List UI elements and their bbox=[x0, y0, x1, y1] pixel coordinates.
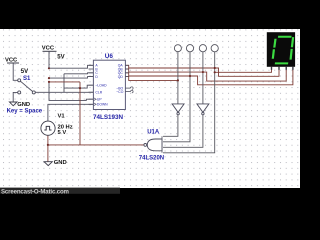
node QA-v4 bbox=[214, 67, 216, 69]
node QC-v2 bbox=[189, 75, 191, 77]
IC U6 pin labels bbox=[95, 64, 123, 107]
display pins bbox=[272, 67, 293, 70]
probe indicator X2 bbox=[186, 45, 193, 52]
wire probe 1 vertical bbox=[177, 52, 179, 104]
digit 0 segments bbox=[272, 36, 295, 65]
svg-text:GND: GND bbox=[54, 160, 67, 166]
wire VCC2 maroon branch bbox=[49, 81, 80, 83]
svg-text:S1: S1 bbox=[23, 76, 31, 82]
wire V1 clock to DOWN pin bbox=[48, 104, 94, 121]
node load step bbox=[79, 87, 81, 89]
wire VCC2 trunk down to UP pin bbox=[49, 82, 93, 101]
wire styles: gray wires bbox=[13, 63, 93, 121]
probe indicator X1 bbox=[174, 45, 218, 52]
NAND gate U1A 74LS20N (mirrored, output left) bbox=[144, 136, 162, 153]
svg-text:VCC: VCC bbox=[5, 57, 18, 63]
letterbox bottom bar bbox=[0, 188, 300, 225]
wire QA out to display in 2 bbox=[125, 65, 279, 76]
svg-text:5V: 5V bbox=[57, 55, 64, 61]
wire switch common to CLR pin bbox=[35, 91, 93, 93]
svg-text:74LS193N: 74LS193N bbox=[93, 114, 124, 121]
wire probe 2 vertical bbox=[163, 52, 190, 142]
svg-text:UP: UP bbox=[97, 98, 102, 102]
power VCC middle bbox=[43, 51, 57, 68]
wire QD out bbox=[125, 77, 178, 81]
probe indicator X3 bbox=[199, 45, 206, 52]
power VCC left bbox=[7, 62, 19, 64]
IC U6 74LS193N body bbox=[93, 60, 125, 109]
wire switch bottom throw to ground bbox=[13, 92, 18, 101]
node VCC2-maroon bbox=[48, 81, 50, 83]
svg-text:DOWN: DOWN bbox=[97, 103, 108, 107]
inverter on v1 bbox=[172, 104, 184, 115]
letterbox top bar bbox=[0, 0, 300, 29]
svg-text:~LOAD: ~LOAD bbox=[95, 84, 107, 88]
wire QC out to display in 4 bbox=[125, 67, 293, 85]
svg-text:U6: U6 bbox=[105, 53, 114, 60]
wire VCC2 to A input bbox=[49, 65, 93, 68]
svg-text:CLR: CLR bbox=[95, 91, 102, 95]
svg-text:5 V: 5 V bbox=[58, 130, 67, 136]
clock source V1 bbox=[41, 121, 55, 135]
svg-text:~CO: ~CO bbox=[116, 90, 123, 94]
svg-text:74LS20N: 74LS20N bbox=[139, 156, 164, 162]
node w1-v4 bbox=[214, 71, 216, 73]
ground GND under V1 bbox=[44, 162, 52, 166]
wire NAND output horizontal / V1 minus net bbox=[48, 144, 144, 146]
node QB-v3 bbox=[202, 71, 204, 73]
inverter on v3 bbox=[197, 104, 209, 115]
IC U6 clock wedges bbox=[93, 98, 96, 106]
svg-text:U1A: U1A bbox=[147, 129, 160, 135]
wire QB out to display in 3 bbox=[125, 67, 286, 81]
switch S1 bbox=[18, 79, 36, 94]
ground GND left bbox=[9, 102, 17, 106]
wire vertical node x64 bbox=[63, 74, 65, 93]
seven-segment display U2 bbox=[267, 32, 295, 70]
wire node x64 to ~LOAD step bbox=[64, 85, 93, 88]
wire VCC2 to D input bbox=[49, 77, 93, 79]
node VCC2-D bbox=[48, 77, 50, 79]
schematic dotted-grid background bbox=[0, 29, 300, 188]
svg-text:GND: GND bbox=[17, 102, 30, 108]
node QD-v1 bbox=[177, 79, 179, 81]
watermark band bbox=[0, 188, 120, 194]
maroon wires bbox=[48, 65, 293, 161]
wire probe 4 vertical bbox=[163, 52, 215, 153]
IC U6 unconnected pin hooks bbox=[131, 87, 134, 93]
wire node x64 to C input bbox=[64, 73, 93, 74]
wire v4 to display in 1 bbox=[215, 67, 272, 73]
svg-text:5V: 5V bbox=[21, 69, 28, 75]
wire probe 3 vertical bbox=[202, 52, 204, 104]
node VCC2-A bbox=[48, 67, 50, 69]
probe vertical wires (gray) bbox=[163, 52, 215, 153]
IC U6 pin stubs left bbox=[89, 65, 94, 104]
probe indicator X4 bbox=[211, 45, 218, 52]
node V1 minus bbox=[47, 144, 49, 146]
IC U6 pin stubs right bbox=[125, 65, 130, 91]
svg-text:Screencast-O-Matic.com: Screencast-O-Matic.com bbox=[1, 188, 70, 195]
wire V1 bottom to ground bbox=[47, 135, 49, 161]
svg-text:QD: QD bbox=[118, 75, 124, 79]
svg-text:VCC: VCC bbox=[42, 45, 55, 51]
svg-text:Key = Space: Key = Space bbox=[7, 108, 43, 114]
junction dots bbox=[47, 67, 216, 146]
wire VCC1 to switch top throw bbox=[13, 63, 18, 80]
wire NAND output vertical bbox=[79, 82, 81, 145]
svg-text:V1: V1 bbox=[58, 113, 66, 119]
